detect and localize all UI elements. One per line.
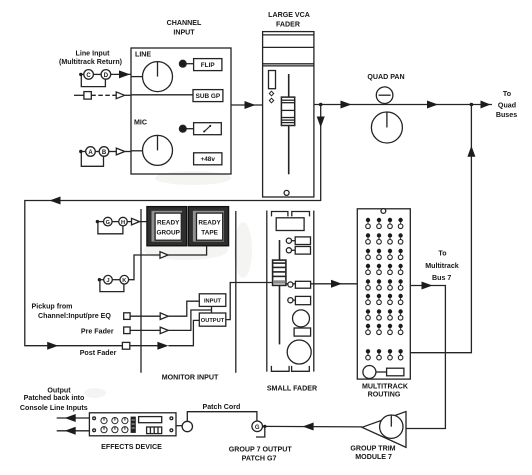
pre-EQ pickup square xyxy=(124,313,130,320)
wire pre-EQ pickup to monitor INPUT xyxy=(130,315,160,317)
svg-text:MIC: MIC xyxy=(134,119,147,127)
FLIP button dot xyxy=(179,60,186,67)
strip bottom connector brackets xyxy=(271,366,289,371)
svg-text:SUB GP: SUB GP xyxy=(196,93,221,100)
ready tape button xyxy=(188,207,228,246)
node patch G7 output xyxy=(263,425,266,428)
label To Quad Buses xyxy=(496,90,517,119)
small fader handle xyxy=(273,260,286,285)
label Line Input (Multitrack Return) xyxy=(59,49,123,66)
svg-text:(Multitrack Return): (Multitrack Return) xyxy=(59,58,123,66)
half-normal bracket under G7 xyxy=(256,426,265,437)
svg-text:Quad: Quad xyxy=(498,101,516,109)
svg-text:LARGE VCA: LARGE VCA xyxy=(268,11,310,19)
group trim module triangle xyxy=(362,412,406,448)
wire group trim to patch G7 xyxy=(263,425,362,428)
MIC knob xyxy=(143,135,173,165)
svg-text:MODULE 7: MODULE 7 xyxy=(355,453,392,461)
svg-text:Pickup from: Pickup from xyxy=(32,302,73,310)
svg-text:SMALL FADER: SMALL FADER xyxy=(267,385,317,393)
svg-text:READY: READY xyxy=(157,219,180,226)
fader handle xyxy=(281,97,294,125)
svg-text:Multitrack: Multitrack xyxy=(425,262,459,270)
small fader button xyxy=(294,328,311,336)
svg-text:K: K xyxy=(122,278,126,284)
svg-text:Console Line Inputs: Console Line Inputs xyxy=(20,404,88,412)
wire OUTPUT to small fader xyxy=(226,283,272,320)
switch pair 2 xyxy=(286,248,291,253)
+48v button xyxy=(194,153,222,165)
quad pan balance pot xyxy=(376,87,393,104)
svg-text:J: J xyxy=(106,278,109,284)
wire B to channel input xyxy=(109,151,117,153)
svg-text:LINE: LINE xyxy=(135,51,151,59)
svg-text:A: A xyxy=(88,150,93,156)
feedback wire fader output down to monitor path xyxy=(25,105,321,346)
small fader track xyxy=(279,240,281,344)
effects dip switches xyxy=(147,427,162,434)
switch pair 3 xyxy=(288,282,293,287)
svg-text:B: B xyxy=(102,150,107,156)
patch jacks C and D xyxy=(79,73,82,76)
large VCA fader module xyxy=(263,32,314,197)
routing button grid xyxy=(366,218,403,360)
wire line-input into LINE knob xyxy=(131,76,143,78)
mute button xyxy=(194,123,222,135)
patch jacks J and K xyxy=(98,278,101,281)
wire to SUB GP xyxy=(131,94,193,96)
wire H to ready group xyxy=(127,221,131,223)
multitrack routing module xyxy=(357,209,410,379)
normalling wire under A B xyxy=(81,153,103,167)
normalling wire under J K xyxy=(100,281,124,292)
svg-text:INPUT: INPUT xyxy=(173,29,195,37)
svg-text:Post Fader: Post Fader xyxy=(80,349,117,357)
effects display xyxy=(139,417,162,423)
node fader output xyxy=(319,103,323,107)
svg-text:MONITOR INPUT: MONITOR INPUT xyxy=(162,373,219,381)
switch pair 4 xyxy=(288,298,293,303)
svg-text:TAPE: TAPE xyxy=(201,229,218,236)
post-fader pickup square xyxy=(122,342,129,349)
svg-text:GROUP 7 OUTPUT: GROUP 7 OUTPUT xyxy=(229,445,293,453)
strip label window xyxy=(276,218,304,231)
label GROUP TRIM MODULE 7 xyxy=(350,444,395,461)
routing master knob xyxy=(363,366,376,379)
small fader big knob xyxy=(287,340,311,364)
patch point G7 xyxy=(252,421,263,432)
svg-text:INPUT: INPUT xyxy=(204,299,222,305)
svg-text:Channel:Input/pre EQ: Channel:Input/pre EQ xyxy=(38,312,111,320)
svg-text:Bus 7: Bus 7 xyxy=(432,274,451,282)
svg-text:+48v: +48v xyxy=(200,156,215,163)
strip top connector brackets xyxy=(272,212,288,217)
svg-text:GROUP TRIM: GROUP TRIM xyxy=(350,444,395,452)
svg-text:Patched back into: Patched back into xyxy=(24,394,85,402)
svg-text:G: G xyxy=(106,220,110,226)
fader indicator diamonds xyxy=(269,91,273,96)
effects output wires to console xyxy=(57,417,90,419)
patch cord xyxy=(187,412,257,422)
svg-text:To: To xyxy=(503,90,512,98)
small fader strip left edge xyxy=(266,211,268,372)
group trim knob xyxy=(380,415,403,438)
wire K to ready tape xyxy=(129,255,160,280)
svg-text:G: G xyxy=(255,425,260,431)
svg-text:C: C xyxy=(86,73,91,79)
patch jacks A and B xyxy=(79,150,82,153)
svg-text:EFFECTS DEVICE: EFFECTS DEVICE xyxy=(101,443,162,451)
wire mic-input into MIC knob xyxy=(131,150,143,152)
label LARGE VCA FADER xyxy=(268,11,310,29)
svg-text:GROUP: GROUP xyxy=(156,229,180,236)
svg-text:PATCH G7: PATCH G7 xyxy=(242,454,277,462)
patch plug xyxy=(182,421,192,431)
svg-text:CHANNEL: CHANNEL xyxy=(167,19,202,27)
svg-text:Patch Cord: Patch Cord xyxy=(202,403,240,411)
wire through small fader to multitrack xyxy=(284,283,357,285)
wire post-fader pickup to monitor OUTPUT xyxy=(130,345,160,347)
wire pre-fader pickup to monitor xyxy=(130,329,160,331)
sub-group dashed input wire xyxy=(74,94,84,96)
monitor section right boundary xyxy=(235,211,237,373)
channel input module box xyxy=(131,48,231,174)
svg-text:Line Input: Line Input xyxy=(76,49,111,57)
SUB GP button xyxy=(193,90,223,102)
small fader knob xyxy=(293,310,310,327)
label Output Patched back into Console Line Inputs xyxy=(20,387,88,412)
svg-text:MULTITRACK: MULTITRACK xyxy=(362,382,409,390)
svg-text:FADER: FADER xyxy=(276,21,300,29)
wire channel input to large fader xyxy=(231,104,263,106)
svg-text:ROUTING: ROUTING xyxy=(368,391,401,399)
switch pair 1 xyxy=(286,238,291,243)
svg-text:H: H xyxy=(121,220,125,226)
svg-text:FLIP: FLIP xyxy=(201,62,216,69)
wire multitrack routing quad feed up to quad buses xyxy=(410,105,471,353)
fader bottom screw xyxy=(284,190,289,195)
patch jacks G and H xyxy=(96,220,99,223)
ready group button xyxy=(147,207,187,246)
monitor OUTPUT box xyxy=(199,313,226,326)
svg-text:OUTPUT: OUTPUT xyxy=(201,318,225,324)
quad pan knob xyxy=(371,112,402,143)
label To Multitrack Bus 7 xyxy=(425,249,459,281)
wire plug to effects device xyxy=(176,425,182,427)
FLIP button xyxy=(194,59,222,71)
small fader strip right edge xyxy=(313,211,315,372)
fader switch xyxy=(269,71,276,89)
effects switch block xyxy=(131,417,136,433)
effects knobs xyxy=(101,418,128,433)
label GROUP 7 OUTPUT PATCH G7 xyxy=(229,445,293,462)
wire D to channel input xyxy=(111,73,131,75)
wire fader to quad pan and quad buses xyxy=(314,104,492,106)
label Pickup from Channel:Input/pre EQ xyxy=(32,302,117,357)
svg-text:D: D xyxy=(104,73,109,79)
normalling wire under C D xyxy=(81,76,105,87)
pre-fader pickup square xyxy=(124,327,130,334)
monitor section left boundary xyxy=(140,209,142,373)
mute button dot xyxy=(179,125,186,132)
label MULTITRACK ROUTING xyxy=(362,382,409,398)
wire INPUT to OUTPUT xyxy=(211,306,213,313)
node quad bus junction xyxy=(470,103,474,107)
wire multitrack routing to bus 7 xyxy=(406,286,445,429)
fader track xyxy=(288,74,290,174)
effects device box xyxy=(89,413,176,436)
LINE knob xyxy=(143,62,173,92)
screws xyxy=(93,417,96,420)
monitor INPUT box xyxy=(199,294,226,307)
svg-text:To: To xyxy=(438,249,447,257)
label CHANNEL INPUT xyxy=(167,19,202,37)
svg-text:Buses: Buses xyxy=(496,111,517,119)
svg-text:Pre Fader: Pre Fader xyxy=(81,327,114,335)
normalling wire under G H xyxy=(98,223,123,234)
svg-text:READY: READY xyxy=(198,219,221,226)
svg-text:QUAD PAN: QUAD PAN xyxy=(367,73,404,81)
